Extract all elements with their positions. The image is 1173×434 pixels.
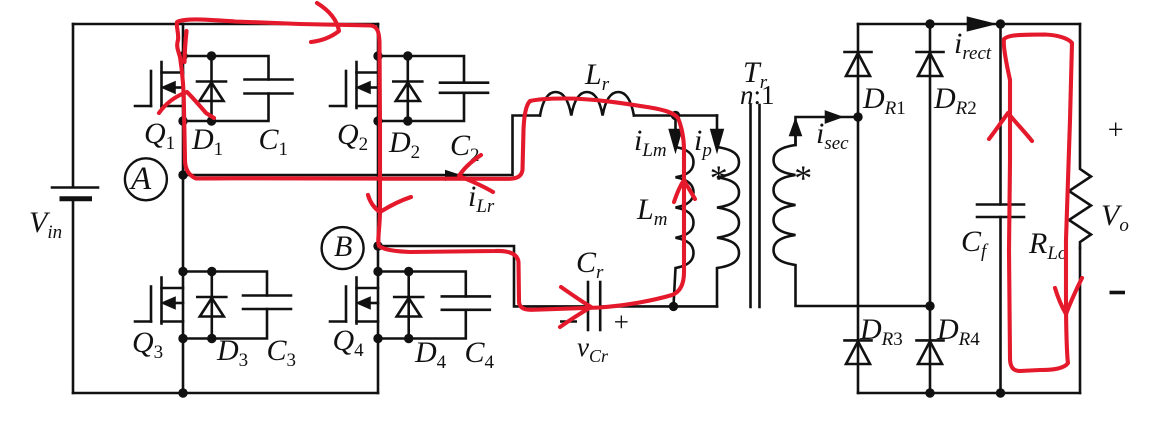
svg-text:C1: C1: [259, 123, 289, 160]
capacitor C4: [442, 296, 490, 309]
rectifier right leg: [929, 24, 932, 393]
wire red loop1 main path: [177, 19, 684, 309]
svg-text:+: +: [1106, 115, 1125, 146]
red annotation current loop 2 (output): [989, 35, 1082, 372]
wire Q2 cell bottom: [378, 93, 464, 121]
node A junction: [178, 170, 187, 179]
red arrow down on Q2 leg: [368, 195, 411, 212]
wire Q1 cell bottom: [183, 94, 269, 122]
label Cr minus: [560, 320, 577, 323]
svg-text:Vin: Vin: [29, 206, 62, 243]
node isec DR1: [853, 112, 862, 121]
inductor Lr: [540, 92, 634, 116]
svg-text:Q1: Q1: [144, 117, 175, 154]
diode DR4: [917, 340, 944, 364]
wire Cr to Lm node: [600, 305, 717, 308]
resistor RLo: [1069, 24, 1091, 248]
wire left rail upper: [72, 24, 75, 187]
red arrow left on iLr wire: [459, 155, 493, 192]
arrow irect: [968, 18, 992, 30]
transformer core: [751, 105, 760, 307]
node Q3 top: [178, 267, 187, 276]
svg-text:+: +: [612, 307, 630, 337]
red arrow right on top rail: [311, 3, 339, 42]
node Cf bottom: [996, 388, 1005, 397]
node D2 bottom: [403, 116, 412, 125]
wire Q3 cell top: [183, 272, 267, 296]
svg-text:Lr: Lr: [584, 58, 610, 95]
node D3 bottom: [207, 334, 216, 343]
svg-text:vCr: vCr: [577, 332, 609, 366]
inductor Lm: [674, 132, 694, 306]
transistor Q4: [330, 278, 378, 324]
arrow iLr black: [445, 170, 462, 181]
node D4 bottom: [404, 334, 413, 343]
node secondary DR4: [925, 301, 934, 310]
svg-text:Q3: Q3: [132, 326, 163, 363]
red arrow up through Q1: [159, 92, 214, 118]
svg-text:Cr: Cr: [576, 246, 604, 283]
svg-text:Q4: Q4: [333, 324, 365, 361]
svg-text:Q2: Q2: [337, 118, 368, 155]
arrow isec right: [826, 112, 858, 122]
svg-text:D1: D1: [191, 123, 223, 160]
svg-text:DR1: DR1: [862, 82, 906, 119]
red arrow up in loop2: [989, 113, 1032, 141]
transformer secondary winding: [774, 122, 931, 306]
transistor Q3: [135, 278, 183, 324]
svg-text:C3: C3: [267, 334, 297, 371]
node D1 bottom: [207, 116, 216, 125]
arrow isec up: [791, 117, 827, 145]
red arrow right at Cr: [560, 287, 591, 327]
capacitor C1: [245, 80, 293, 94]
svg-text:*: *: [793, 158, 811, 198]
node Q4 top: [373, 267, 382, 276]
svg-text:DR2: DR2: [933, 82, 977, 119]
svg-text:irect: irect: [954, 27, 992, 64]
node Lm bottom: [669, 302, 678, 311]
arrow ip: [712, 116, 723, 150]
transformer primary winding: [717, 132, 739, 306]
svg-text:Cf: Cf: [961, 225, 989, 262]
node D3 top: [207, 267, 216, 276]
capacitor Cf stub bottom: [999, 217, 1002, 393]
node Lm top: [671, 111, 680, 120]
wire leg2 (Q2/Q4 leg): [377, 24, 380, 393]
svg-text:n:1: n:1: [740, 80, 775, 110]
diode D2: [393, 56, 422, 121]
svg-text:ip: ip: [694, 124, 712, 161]
wire output top rail: [858, 23, 1080, 26]
node Q2 drain: [373, 51, 382, 60]
transistor Q2: [330, 62, 378, 108]
node Q4 bottom: [373, 334, 382, 343]
wire Q1 cell top: [183, 56, 269, 80]
diode D4: [394, 272, 423, 339]
rectifier left leg: [857, 24, 860, 393]
svg-text:Vo: Vo: [1101, 199, 1129, 236]
wire red overlap stroke at Q1 top: [185, 31, 187, 62]
svg-text:DR4: DR4: [936, 313, 980, 350]
capacitor Cf stub top: [999, 24, 1002, 205]
diode D3: [197, 272, 226, 339]
node DR2 top: [925, 19, 934, 28]
red arrow down in loop2: [1055, 278, 1082, 314]
wire bottom rail: [73, 392, 378, 395]
wire Q4 cell bottom: [378, 310, 466, 339]
svg-text:D4: D4: [414, 336, 447, 373]
node D2 top: [403, 51, 412, 60]
wire left rail lower: [72, 199, 75, 393]
wire Q2 cell top: [378, 56, 464, 83]
svg-text:B: B: [334, 230, 352, 263]
node A circle: [125, 158, 167, 200]
transistor Q1: [135, 62, 183, 108]
svg-text:DR3: DR3: [859, 313, 903, 350]
node D4 top: [404, 267, 413, 276]
node Q1 drain: [178, 51, 187, 60]
wire tank top to transformer: [634, 114, 717, 117]
capacitor C2: [440, 83, 488, 93]
wire top rail: [73, 23, 378, 26]
node B circle: [322, 227, 364, 269]
wire node A to tank: [183, 116, 540, 176]
diode D1: [197, 56, 226, 121]
wire right leg lower: [1079, 248, 1082, 393]
diode DR2: [917, 52, 944, 76]
battery Vin: [52, 188, 98, 199]
diode DR1: [845, 52, 872, 76]
node bottom rail leg1: [178, 388, 187, 397]
capacitor Cr: [588, 282, 600, 330]
wire leg1 (Q1/Q3 leg): [182, 24, 185, 393]
wire node B to tank bottom: [378, 246, 588, 306]
node D1 top: [207, 51, 216, 60]
wire Q4 cell top: [378, 272, 466, 297]
svg-text:Lm: Lm: [636, 193, 667, 230]
wire output bottom rail: [858, 392, 1080, 395]
node Q2 source: [373, 116, 382, 125]
node Q3 bottom: [178, 334, 187, 343]
svg-text:D2: D2: [388, 126, 420, 163]
node DR4 bottom: [925, 388, 934, 397]
red arrow up on Lm: [674, 180, 695, 202]
wire red loop2 rect: [1004, 35, 1072, 372]
wire Q3 cell bottom: [183, 309, 267, 339]
red annotation current loop 1: [159, 3, 695, 327]
node Q1 source: [178, 116, 187, 125]
node Cf top: [996, 19, 1005, 28]
arrow iLm: [670, 116, 681, 150]
capacitor C3: [243, 296, 291, 310]
diode DR3: [845, 340, 872, 364]
node B junction: [373, 241, 382, 250]
svg-text:A: A: [129, 161, 152, 197]
svg-text:RLo: RLo: [1028, 227, 1067, 264]
svg-text:*: *: [708, 158, 726, 198]
svg-text:C4: C4: [465, 336, 495, 373]
svg-text:iLm: iLm: [634, 124, 667, 161]
label Vo minus: [1110, 291, 1126, 295]
svg-text:isec: isec: [816, 117, 849, 154]
capacitor Cf: [977, 205, 1024, 218]
